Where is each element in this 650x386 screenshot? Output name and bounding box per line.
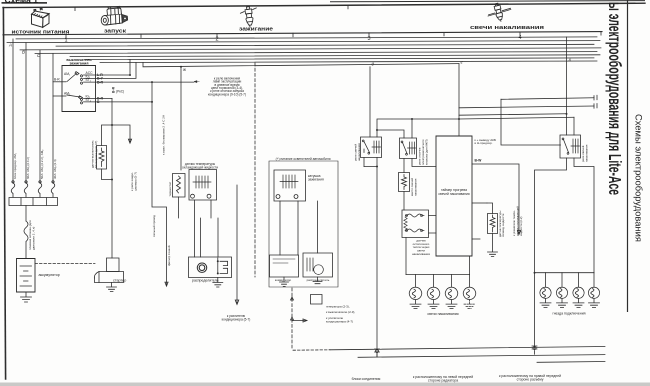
sensor fuse element top: [406, 214, 425, 217]
wire relay2 bottom to resistor: [403, 159, 405, 173]
distributor ground: [213, 278, 223, 288]
right wires y107: [459, 106, 594, 108]
svg-text:B-R: B-R: [112, 86, 116, 93]
svg-text:ST₁: ST₁: [86, 78, 92, 82]
svg-text:зажигания: зажигания: [70, 62, 89, 66]
relay3 switch: [564, 140, 569, 153]
glow plug relay no.1 box: [361, 137, 382, 158]
wire timer right y239 stub: [472, 238, 480, 240]
relay2 switch: [403, 143, 408, 154]
svg-text:накаливания: накаливания: [584, 144, 588, 162]
ignition switch contacts AM2/ST2: [80, 98, 82, 104]
svg-text:AM₁: AM₁: [64, 72, 71, 76]
svg-text:свечей накаливания: свечей накаливания: [438, 192, 469, 196]
distributor contact dots: [217, 260, 219, 262]
wire x166 down: [152, 102, 168, 286]
bus wire 2 (A): [7, 41, 600, 43]
wire relay1 top right to y119: [377, 119, 459, 137]
svg-text:свечи накаливания: свечи накаливания: [470, 25, 544, 31]
wire x152 drop to ST2 wire: [151, 82, 153, 102]
sensor fuse element bottom: [406, 229, 425, 232]
switch input wire AM2 left: [53, 95, 66, 97]
annotation arrow: [194, 81, 200, 83]
svg-text:ционера (5-7): ционера (5-7): [133, 172, 137, 191]
svg-text:30A: АМ₂ (2.4): 30A: АМ₂ (2.4): [53, 159, 57, 179]
wire relay2 tops: [377, 119, 412, 138]
node dot x566: [566, 113, 568, 115]
water temp sender box: [189, 170, 217, 201]
bus wire 3: [56, 44, 594, 46]
coil wires down: [280, 201, 318, 255]
junction connector marks x377: [375, 349, 380, 357]
tick on top line x348: [347, 5, 349, 9]
bus wire 4 (B): [20, 48, 601, 50]
svg-text:к выкл. блокировки 2 ,4 С 2Н: к выкл. блокировки 2 ,4 С 2Н: [162, 115, 166, 155]
relay3 terminal dots: [562, 138, 569, 154]
node dot rejoin: [111, 179, 113, 181]
svg-text:4: 4: [518, 35, 521, 41]
svg-text:двигателя 2 ,4 л): двигателя 2 ,4 л): [32, 227, 36, 250]
frame: header top line: [3, 3, 645, 7]
switch input wire AM1: [53, 81, 66, 83]
cutoff relay no.2 box: [400, 138, 417, 159]
svg-text:стартер: стартер: [113, 279, 126, 283]
sensor squiggle terminal circles: [405, 214, 422, 231]
ground below glow plug x578.5: [573, 298, 584, 307]
frame: left border: [3, 8, 5, 379]
resistor element inside: [99, 148, 104, 167]
glow plug at x594: [588, 273, 599, 299]
svg-text:генератора (2-3),: генератора (2-3),: [326, 304, 350, 308]
junction connector marks x534: [532, 346, 537, 354]
distributor(coil side) box: [303, 253, 333, 277]
svg-text:г: г: [461, 59, 463, 64]
wire sender to distributor left: [195, 200, 201, 257]
tick under header line mid1: [140, 34, 142, 38]
tick under header line 4: [519, 32, 521, 36]
node dot glow bus x534: [534, 272, 536, 274]
right wire y119 extension: [459, 117, 574, 119]
wire y166 under relays: [364, 167, 377, 358]
coil side box hatch + circle: [307, 258, 323, 274]
fuse wire F1 drop: [12, 39, 14, 183]
tick under header line 1: [65, 34, 67, 38]
node dot x377 y130: [376, 129, 378, 131]
top frame second line right: [330, 1, 645, 2]
bus wire 1: [16, 37, 597, 39]
bus wire 7: [85, 58, 594, 60]
arrow right on dashed x292: [291, 297, 308, 322]
tick under header line mid3: [443, 32, 445, 36]
bus wire 6: [70, 55, 600, 57]
igniter inner mark: [273, 259, 295, 263]
svg-text:стороне разъёму: стороне разъёму: [517, 377, 544, 381]
sender coil hatch: [193, 176, 211, 188]
node dot y125: [111, 124, 113, 126]
glow sensor box: [402, 210, 429, 238]
svg-text:гнезда подключения: гнезда подключения: [552, 312, 585, 316]
fuse terminal circles: [12, 181, 54, 183]
wire relay2 bottom right: [412, 159, 436, 167]
wire timer right y203 stub: [472, 202, 487, 204]
svg-text:запуск: запуск: [104, 29, 126, 35]
ignition switch box: [62, 66, 96, 112]
svg-text:сальный провод: сальный провод: [152, 215, 156, 237]
branch arrow to A/C relay: [112, 125, 132, 143]
svg-text:блоки соединения: блоки соединения: [352, 377, 381, 381]
glow bus left set: [406, 274, 470, 276]
glow plug at x433.5: [427, 275, 439, 300]
battery feed wire: [25, 206, 27, 222]
svg-text:B: B: [22, 50, 25, 55]
tick under header line mid2: [292, 33, 294, 37]
right wires y115: [459, 114, 566, 115]
svg-text:кондиционера (5-7): кондиционера (5-7): [222, 317, 251, 321]
svg-text:аккумулятор: аккумулятор: [39, 273, 60, 277]
wires sensor to timer: [429, 216, 437, 234]
bus wire 5 (C): [35, 52, 597, 54]
svg-text:охлажд. жидкости: охлажд. жидкости: [501, 213, 505, 237]
svg-text:50A: АМ₁ (2.2 л), АМ₂: 50A: АМ₁ (2.2 л), АМ₂: [40, 149, 44, 179]
svg-text:и Н-предохр.: и Н-предохр.: [475, 141, 493, 145]
tick on top line x75: [74, 7, 76, 11]
starter icon (header): [101, 6, 127, 25]
relay3 coil hatch: [571, 139, 580, 153]
battery: [17, 259, 36, 293]
thermostat box: [173, 174, 186, 198]
wire sensor box bottom to glow bus: [405, 238, 407, 275]
sender terminals: [191, 194, 212, 198]
svg-text:(+) питание осветителей автомо: (+) питание осветителей автомобиля: [276, 157, 331, 161]
wire sender to distributor right: [179, 197, 219, 257]
igniter box: [270, 255, 299, 277]
glow current resistor box: [399, 173, 410, 192]
bus wire 8: [100, 61, 597, 63]
starter ground: [107, 283, 117, 292]
fuse F2 element: [24, 183, 28, 197]
svg-text:свечи накаливания: свечи накаливания: [427, 312, 458, 316]
distributor contact: [218, 258, 228, 274]
svg-text:распределитель: распределитель: [307, 278, 330, 282]
svg-text:клапана (для МКП): клапана (для МКП): [424, 139, 428, 165]
svg-text:2: 2: [215, 37, 218, 43]
svg-text:B-R: B-R: [54, 78, 60, 82]
bottom junction bus line 3: [537, 361, 605, 364]
svg-text:3: 3: [367, 36, 370, 42]
glow plug at x415.5: [409, 275, 421, 300]
node dot relay2 top: [411, 118, 413, 120]
relay2 terminal dots: [401, 141, 407, 155]
wire resistor bottom rejoin: [102, 169, 113, 180]
wire x370 down to glow relay: [369, 67, 371, 137]
svg-text:к выключателю (2-3),: к выключателю (2-3),: [326, 310, 355, 314]
glow sensor label: [412, 239, 430, 256]
svg-text:накаливания: накаливания: [357, 143, 361, 161]
wire AM2-IG2 out: [84, 97, 113, 99]
spark plug icon (header, зажигание): [240, 6, 259, 28]
glow plug at x451.5: [445, 275, 457, 300]
relay1 switch: [364, 142, 370, 153]
fuse wire F2 drop: [25, 43, 27, 183]
node dot x181: [180, 66, 182, 68]
fuse wire F4 drop: [52, 53, 54, 183]
resistor zigzag inside: [402, 175, 407, 190]
wire resistor down to sensor box: [403, 192, 405, 211]
svg-text:источник питания: источник питания: [12, 30, 70, 36]
fusible link squiggle: [24, 221, 28, 259]
wire IG out to bus: [84, 63, 137, 79]
wire x566 from header: [566, 37, 568, 135]
fuse F4 element: [51, 183, 55, 197]
svg-text:распределитель: распределитель: [192, 279, 219, 283]
ignition coil assembly outline: [269, 161, 338, 287]
svg-text:A: A: [8, 42, 12, 47]
glow plug icon (header, свечи накаливания): [488, 3, 511, 22]
wire x112 down to starter: [111, 98, 113, 258]
svg-text:60A: АМ₁ (2.4 л): 60A: АМ₁ (2.4 л): [26, 157, 30, 179]
svg-text:накаливания: накаливания: [412, 252, 430, 256]
wire to coolant resistor: [487, 203, 493, 214]
coil group grounds: [280, 277, 289, 286]
wire x237 down to AC amp arrow: [235, 185, 239, 305]
resistor box (clutch start switch): [97, 146, 107, 170]
wire x574 drop to relay3: [573, 117, 575, 135]
relay2 coil hatch: [408, 142, 416, 154]
svg-text:1: 1: [64, 38, 67, 44]
ignition switch lever 1: [67, 72, 79, 82]
bottom scan shadow: [0, 383, 650, 386]
ground below glow plug x451.5: [446, 300, 457, 309]
ground below glow plug x562: [557, 298, 568, 307]
node dot ST1 x152: [151, 81, 153, 83]
relay1 terminal dots: [362, 140, 369, 154]
svg-text:блокировки (для АТ): блокировки (для АТ): [94, 141, 98, 168]
tick under header line 2: [216, 34, 218, 38]
svg-text:ST₂: ST₂: [86, 98, 92, 102]
svg-text:зажигание: зажигание: [239, 26, 273, 32]
node dot ACC bus: [129, 74, 131, 76]
ground below glow plug x469.5: [464, 300, 475, 309]
dashed wire x255: [254, 63, 256, 277]
wire relay1 bottoms: [364, 158, 377, 167]
glow plug at x578.5: [573, 273, 584, 299]
thermostat element: [177, 176, 181, 193]
starter motor: [107, 258, 120, 272]
tick under header line right end: [600, 32, 602, 35]
ground below glow plug x415.5: [410, 300, 421, 309]
glow timer box: [436, 136, 472, 256]
bottom junction bus line 2: [358, 355, 605, 358]
svg-text:B-W: B-W: [475, 159, 483, 163]
glow plug at x545.5: [540, 273, 551, 299]
coolant resistor zigzag: [490, 215, 495, 232]
ground below glow plug x433.5: [428, 300, 439, 309]
connector box on dashed x292: [311, 295, 323, 305]
wire x181 down to temp sensor: [180, 67, 182, 170]
svg-text:зажигания: зажигания: [308, 177, 324, 181]
svg-text:термостат: термостат: [168, 181, 172, 196]
wire y67 long segment: [143, 62, 459, 66]
frame: header bottom line: [3, 32, 602, 35]
ignition switch lever 2: [67, 95, 83, 99]
svg-text:блок предохр. АМ₁: блок предохр. АМ₁: [13, 153, 17, 179]
svg-text:ы электрооборудования для Lite: ы электрооборудования для Lite-Ace: [604, 2, 623, 195]
svg-text:Схемы электрооборудования: Схемы электрооборудования: [634, 114, 644, 242]
right wires y99: [501, 98, 594, 100]
svg-text:фильтр тонкой: фильтр тонкой: [167, 245, 171, 266]
wire timer top to bus H: [458, 64, 460, 136]
wire relay3 bottom jog to x534: [535, 158, 567, 348]
battery plates: [20, 266, 32, 286]
svg-text:(РкС): (РкС): [116, 89, 124, 93]
dashed link battery-starter: [35, 263, 95, 265]
node dot 459-119: [458, 118, 460, 120]
fuse block box row: [9, 198, 58, 206]
ignition switch contacts ACC/IG/ST: [80, 75, 82, 84]
fuse F3 element: [38, 183, 42, 197]
svg-text:охлаждающей жидкости: охлаждающей жидкости: [182, 165, 218, 169]
distributor box: [189, 257, 232, 278]
battery icon (header): [32, 8, 50, 27]
svg-text:жидкости (2-2): жидкости (2-2): [519, 217, 523, 236]
svg-text:коммутатор: коммутатор: [275, 278, 292, 282]
bottom junction bus line 1: [293, 349, 330, 351]
wire ACC out to bus: [84, 59, 131, 75]
wire timer right y164: [472, 164, 521, 235]
wire ST2 out: [84, 101, 153, 103]
fuse F1 element: [11, 183, 15, 197]
coil terminals: [276, 195, 298, 199]
svg-text:AM₂: AM₂: [64, 91, 71, 95]
sidebar rule: [627, 0, 629, 312]
relay1 coil hatch: [372, 141, 381, 153]
glow plug relay no.2 box: [560, 135, 581, 158]
coolant temp resistor box: [488, 214, 498, 234]
distributor rotor circle: [197, 263, 206, 272]
node dot x152 bottom: [151, 101, 153, 103]
annotation block near ST wire: [208, 76, 246, 96]
wire ST1 long out: [84, 81, 195, 83]
sensor left resistor mark: [404, 217, 407, 230]
svg-text:кондиционера (4-7): кондиционера (4-7): [326, 319, 353, 323]
svg-text:B-R: B-R: [97, 80, 104, 84]
bottom junction bus line 1 solid: [330, 347, 605, 350]
battery ground: [21, 292, 32, 302]
wire end marks y106: [594, 104, 597, 109]
wire relay3 bottom right jog: [574, 158, 594, 273]
wire end marks y98: [594, 95, 597, 100]
svg-text:стороне радиатора: стороне радиатора: [428, 378, 458, 382]
svg-text:кондиционера (9-10) (5-7): кондиционера (9-10) (5-7): [208, 92, 246, 96]
wire y125 branch: [102, 125, 113, 146]
glow bus right set: [535, 272, 595, 274]
coil group ground 2: [313, 277, 322, 284]
glow plug at x562: [556, 273, 567, 299]
coolant resistor ground: [488, 234, 498, 257]
coil winding hatch: [280, 175, 298, 188]
wire x501 drop: [501, 99, 561, 145]
ground below glow plug x545.5: [540, 298, 551, 307]
glow plug at x469.5: [463, 275, 475, 300]
wire timer bottom to glow bus: [469, 256, 471, 275]
node dots relay1 bottom: [376, 166, 378, 168]
ignition coil box: [274, 170, 306, 201]
ground below glow plug x594: [589, 298, 600, 307]
svg-text:накаливания: накаливания: [413, 178, 417, 196]
dashed wire x292 lower: [291, 288, 293, 348]
fuse wire F3 drop: [39, 50, 41, 183]
tick under header line 3: [368, 33, 370, 37]
